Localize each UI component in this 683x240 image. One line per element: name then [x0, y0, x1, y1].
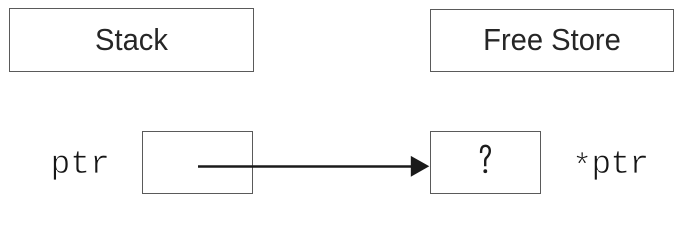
- box ptr cell: [142, 131, 253, 195]
- box Free Store: [430, 9, 674, 72]
- wire arrow shaft: [198, 165, 414, 168]
- label *ptr: [572, 148, 648, 181]
- box Stack: [9, 8, 254, 72]
- label ptr: [51, 148, 110, 181]
- arrowhead: [411, 156, 430, 177]
- label Free Store: [437, 24, 666, 55]
- box question cell: [430, 131, 541, 194]
- label Stack: [16, 24, 246, 55]
